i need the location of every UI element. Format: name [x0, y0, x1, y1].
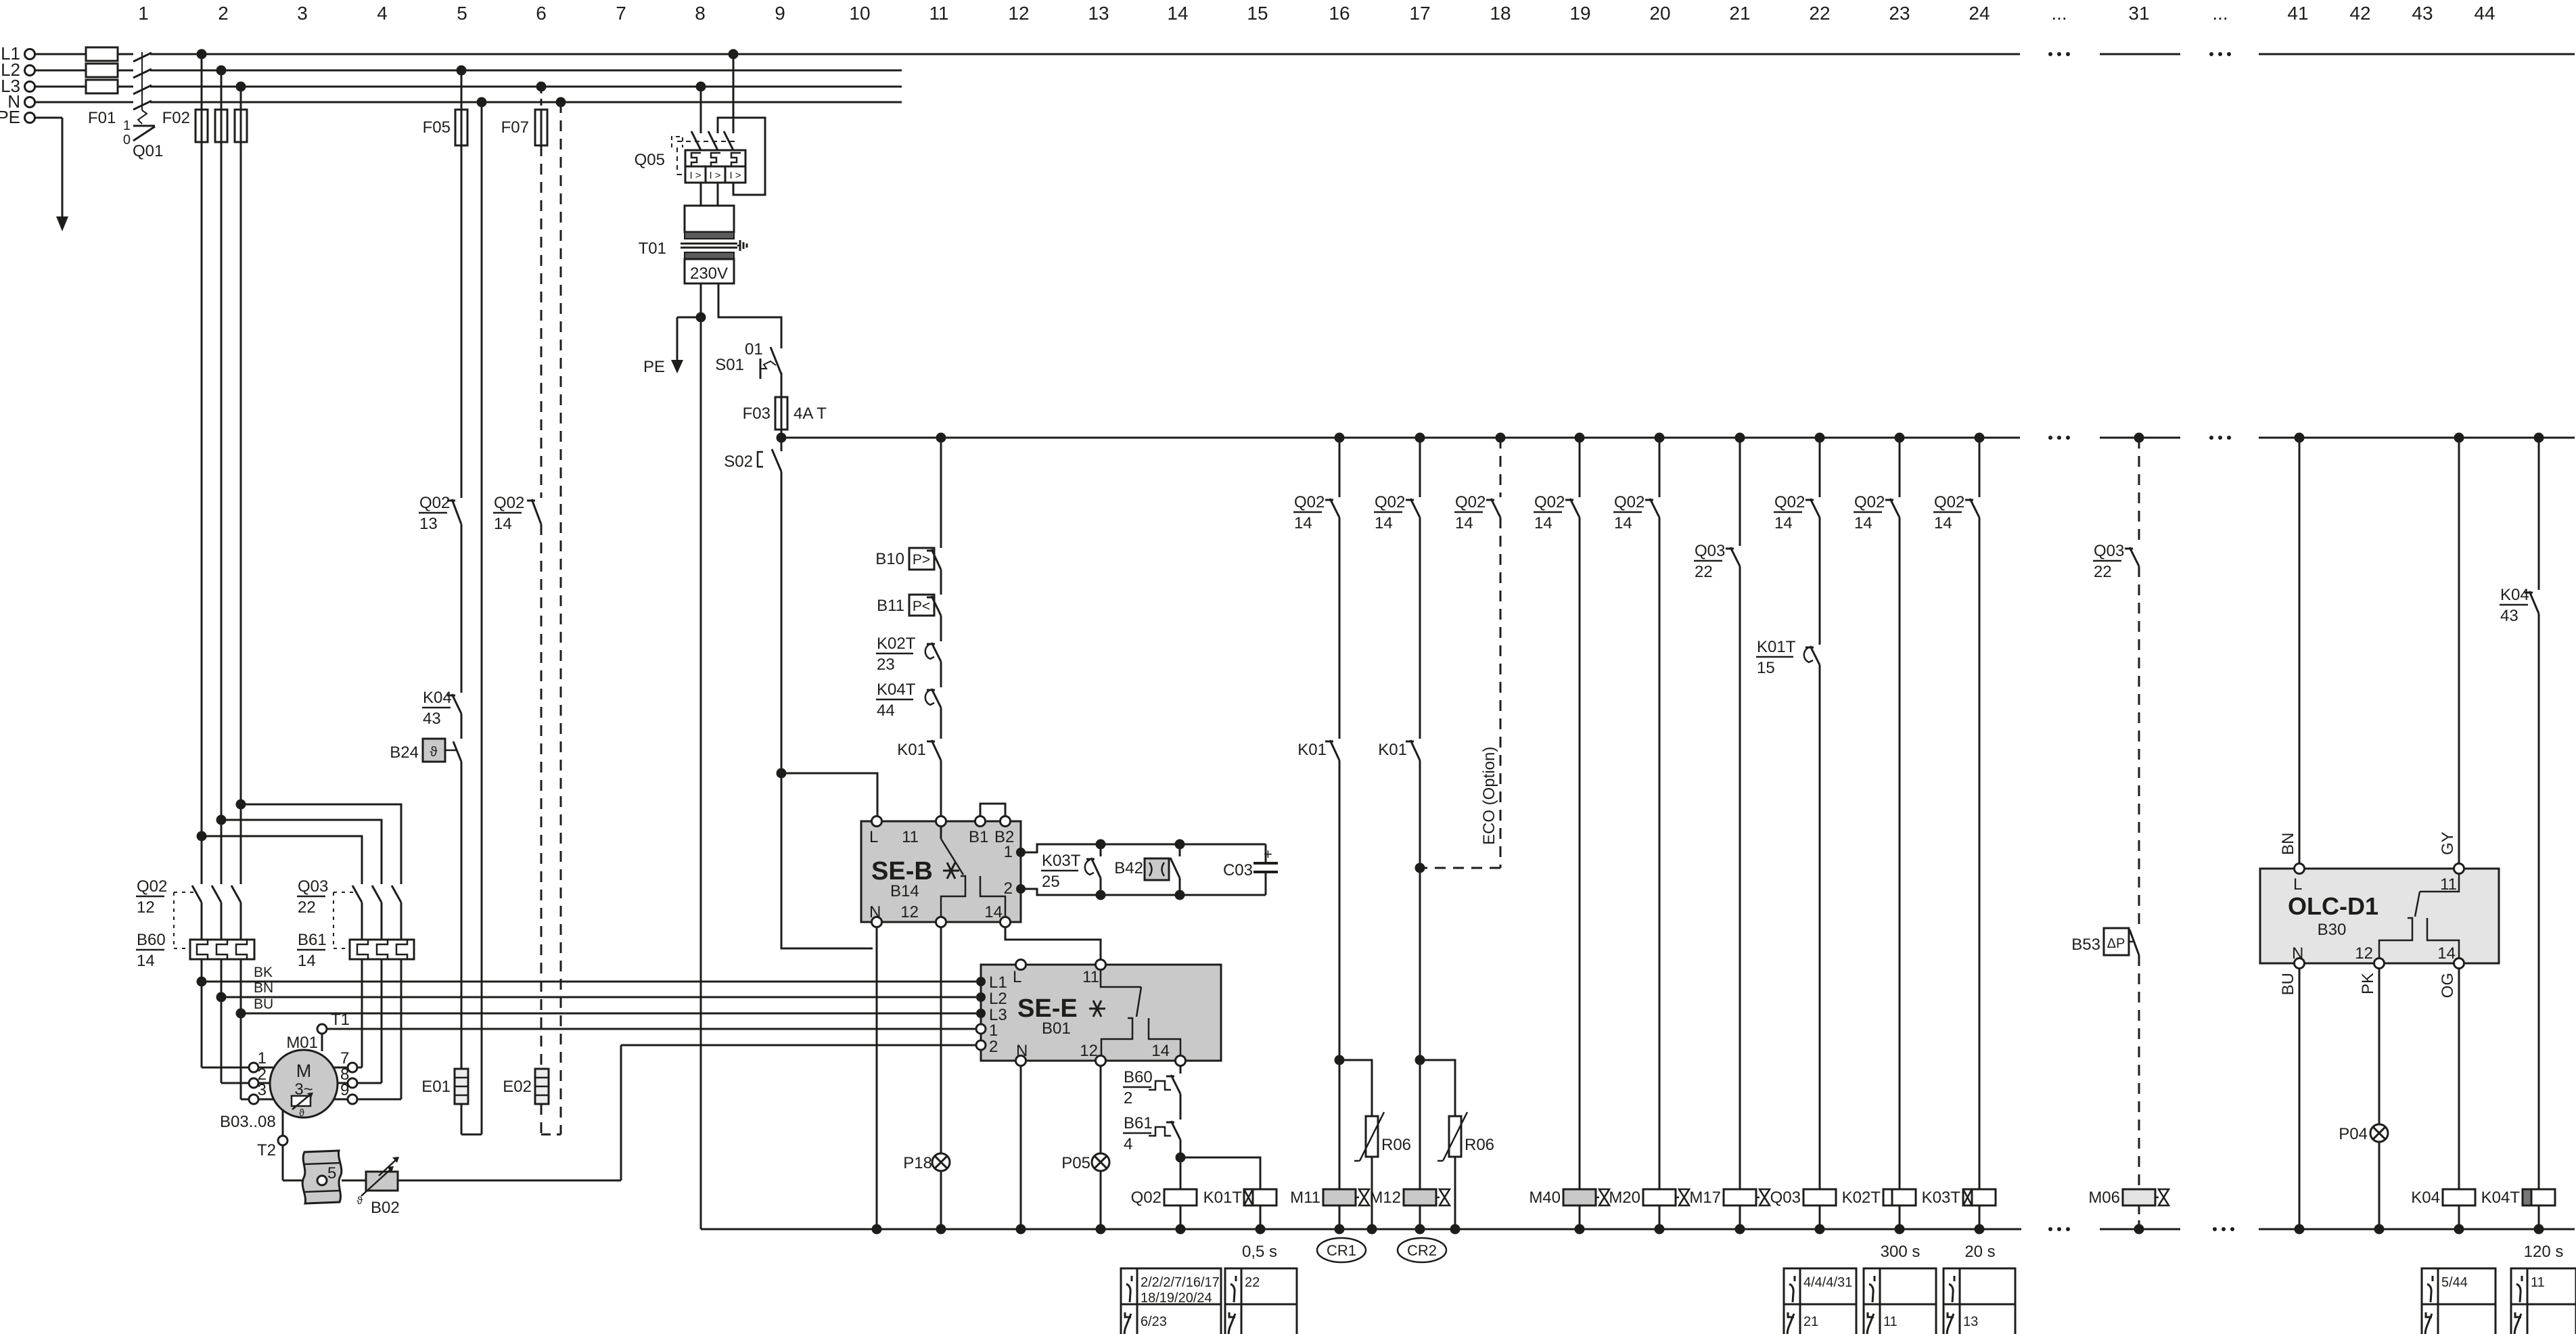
svg-text:Q02: Q02	[1375, 493, 1405, 511]
svg-text:B14: B14	[890, 882, 919, 900]
wire col22	[1819, 438, 1821, 497]
svg-text:5: 5	[327, 1164, 336, 1182]
svg-text:ΔP: ΔP	[2107, 936, 2125, 951]
terminal L1	[25, 49, 35, 60]
OLC terminal N	[2295, 959, 2305, 969]
svg-text:SE-E: SE-E	[1017, 994, 1078, 1023]
svg-text:L2: L2	[989, 990, 1007, 1008]
wire dashed	[540, 524, 543, 1069]
node rail	[1815, 1224, 1825, 1235]
Q05 thermal box	[685, 150, 745, 166]
svg-text:12: 12	[900, 903, 919, 921]
svg-text:14: 14	[1375, 514, 1393, 532]
svg-text:Q02: Q02	[1774, 493, 1805, 511]
pressure switch B10 P>	[909, 548, 934, 570]
node L3-F02	[236, 82, 246, 92]
oil level control OLC-D1 B30	[2260, 869, 2499, 963]
wire to K01T coil	[1180, 1157, 1260, 1189]
fuse F01 (3x)	[86, 47, 118, 61]
node L3-Q05	[696, 82, 706, 92]
svg-text:14: 14	[1934, 514, 1952, 532]
contact Q02/14	[532, 499, 541, 524]
svg-text:C03: C03	[1223, 861, 1253, 879]
svg-text:31: 31	[2128, 3, 2149, 24]
wires Q02 to B60	[201, 902, 203, 940]
svg-text:K01: K01	[897, 741, 926, 759]
svg-text:9: 9	[340, 1081, 349, 1099]
heater E02 (option)	[503, 1078, 532, 1096]
control rail L	[781, 437, 2020, 439]
svg-text:K03T: K03T	[1042, 852, 1081, 870]
node L3-F07	[536, 82, 547, 92]
svg-text:3: 3	[258, 1081, 267, 1099]
button S02	[781, 438, 783, 451]
svg-text:M20: M20	[1609, 1189, 1640, 1207]
wire F02 phase 2	[221, 70, 223, 110]
wire T01 secondary left (N)	[700, 283, 702, 317]
coil Q02	[1180, 1157, 1182, 1189]
svg-text:Q02: Q02	[137, 877, 167, 896]
svg-text:42: 42	[2349, 3, 2370, 24]
node rail	[2374, 1224, 2385, 1235]
svg-text:N: N	[869, 903, 881, 921]
svg-text:23: 23	[1889, 3, 1910, 24]
contact table Q02	[1121, 1268, 1221, 1334]
svg-text:44: 44	[2474, 3, 2495, 24]
SE-B* terminal L	[872, 816, 882, 827]
wire S02 to N line	[781, 773, 873, 948]
svg-text:22: 22	[298, 898, 316, 917]
svg-text:23: 23	[877, 655, 895, 674]
Q03 linkage dashed	[333, 892, 354, 893]
coil Q03	[1803, 1189, 1836, 1205]
node rail N	[872, 1224, 882, 1235]
node R06 branch 2	[1415, 1055, 1425, 1065]
motor terminals 7 8 9	[334, 1067, 348, 1069]
node rail col22	[1815, 433, 1825, 443]
svg-text:41: 41	[2287, 3, 2308, 24]
svg-text:K01T: K01T	[1203, 1189, 1243, 1207]
wire col16	[1339, 438, 1341, 497]
svg-text:11: 11	[1082, 968, 1099, 986]
svg-text:PE: PE	[643, 358, 665, 376]
node rail	[1655, 1224, 1665, 1235]
svg-text:ECO (Option): ECO (Option)	[1480, 747, 1498, 845]
wire thermistor 1 (T1)	[327, 1028, 976, 1030]
svg-text:5: 5	[457, 3, 467, 24]
wire	[1579, 517, 1581, 1189]
svg-text:Q02: Q02	[1131, 1189, 1161, 1207]
break dots L1	[2048, 52, 2052, 56]
node R06 branch 1	[1335, 1055, 1345, 1065]
svg-text:4: 4	[1124, 1135, 1132, 1153]
wire to SE-B* L	[781, 773, 877, 816]
fuse F07	[540, 87, 543, 110]
svg-text:14: 14	[1614, 514, 1632, 532]
wire E02 loop dashed	[540, 1104, 543, 1134]
wires Q03 to B61	[361, 902, 363, 940]
svg-text:CR1: CR1	[1327, 1242, 1356, 1259]
SE-E* terminal 11	[1096, 960, 1106, 970]
contact table K04	[2422, 1268, 2495, 1334]
svg-text:B10: B10	[875, 550, 904, 568]
node BN	[216, 992, 227, 1003]
wire	[461, 524, 463, 693]
wire SE-B* 14 to SE-E* 11	[1005, 927, 1101, 960]
svg-text:Q03: Q03	[1770, 1189, 1801, 1207]
node ECO junction	[1415, 863, 1425, 873]
svg-text:N: N	[2292, 944, 2303, 963]
svg-text:44: 44	[877, 701, 895, 720]
svg-text:4: 4	[377, 3, 388, 24]
svg-text:ϑ: ϑ	[299, 1107, 305, 1119]
node L1-Q05	[729, 49, 739, 60]
contact K01 col17	[1410, 740, 1420, 760]
wire from SE-B* 1	[1021, 844, 1266, 852]
svg-text:N: N	[1016, 1042, 1028, 1060]
svg-text:M: M	[296, 1061, 312, 1081]
SE-B* star symbol	[943, 862, 959, 879]
OLC terminal 11	[2454, 864, 2464, 874]
SE-B* terminal 14	[1001, 917, 1011, 927]
svg-text:K01: K01	[1378, 741, 1407, 759]
main switch Q01	[133, 53, 152, 62]
svg-text:B42: B42	[1114, 859, 1143, 877]
protection device SE-E* B01	[981, 965, 1221, 1061]
coil K03T (20 s)	[1963, 1189, 1996, 1205]
coil K02T (300 s)	[1883, 1189, 1916, 1205]
node rail	[1450, 1224, 1460, 1235]
svg-text:5/44: 5/44	[2441, 1275, 2468, 1290]
svg-text:14: 14	[494, 515, 512, 533]
terminal T2	[282, 1109, 284, 1136]
pressure switch B11 P<	[909, 595, 934, 616]
wire from SE-B* 2	[1021, 889, 1266, 895]
svg-text:L: L	[1013, 968, 1021, 986]
wires B60 down	[201, 959, 203, 1067]
svg-text:B61: B61	[1124, 1114, 1153, 1132]
node rail N	[1016, 1224, 1026, 1235]
wire col20	[1659, 438, 1661, 497]
svg-text:BU: BU	[2279, 973, 2297, 995]
svg-text:14: 14	[2437, 944, 2456, 963]
svg-text:P04: P04	[2339, 1125, 2368, 1143]
svg-text:K04: K04	[423, 689, 452, 707]
svg-text:Q01: Q01	[133, 142, 163, 160]
node rail	[1895, 1224, 1905, 1235]
contact K04/43	[2529, 591, 2539, 614]
node S02 branch	[777, 768, 787, 779]
contact K04/43	[452, 694, 461, 714]
svg-text:15: 15	[1757, 659, 1775, 677]
svg-text:L: L	[2293, 875, 2302, 894]
wire	[940, 708, 942, 739]
wire BU down	[2299, 968, 2301, 1229]
svg-text:24: 24	[1969, 3, 1990, 24]
svg-text:13: 13	[419, 515, 438, 533]
node rail	[2454, 1224, 2464, 1235]
SE-B* B1-B2 jumper	[980, 804, 1005, 816]
svg-text:2: 2	[218, 3, 229, 24]
svg-text:M17: M17	[1689, 1189, 1721, 1207]
wire SE-B* 12 down / lamp P18	[940, 927, 942, 1153]
svg-text:12: 12	[2355, 944, 2373, 963]
contact Q02/13	[452, 499, 461, 524]
node rail	[2295, 1224, 2305, 1235]
svg-text:22: 22	[1695, 563, 1713, 581]
motor M01	[286, 1034, 318, 1052]
PE arrow at T01	[677, 317, 701, 319]
svg-text:R06: R06	[1465, 1136, 1494, 1154]
wire col19	[1579, 438, 1581, 497]
svg-text:22: 22	[2094, 563, 2112, 581]
svg-text:14: 14	[1774, 514, 1793, 532]
svg-text:T01: T01	[639, 239, 666, 258]
node rail GY	[2454, 433, 2464, 443]
svg-text:3: 3	[297, 3, 308, 24]
svg-text:CR2: CR2	[1407, 1242, 1437, 1259]
wire	[1739, 566, 1741, 1189]
SE-B* terminal B2	[1001, 816, 1011, 827]
svg-text:K01T: K01T	[1757, 638, 1796, 656]
node F03-rail	[777, 433, 787, 443]
svg-text:P<: P<	[913, 599, 930, 614]
SE-B* terminal 12	[936, 917, 946, 927]
svg-text:K01: K01	[1297, 741, 1327, 759]
contact K01 (col11)	[931, 740, 941, 760]
svg-text:P>: P>	[913, 552, 930, 568]
node rail	[1575, 1224, 1585, 1235]
wire	[940, 616, 942, 641]
OLC terminal L	[2295, 864, 2305, 874]
SE-B* terminal 1	[1016, 848, 1026, 857]
svg-text:P05: P05	[1061, 1154, 1090, 1172]
node rail col18	[1496, 433, 1506, 443]
coil M12 (solenoid)	[1404, 1189, 1436, 1205]
node Q02 branch	[1176, 1153, 1186, 1163]
SE-E* terminal L3	[976, 1009, 986, 1018]
wire	[1339, 760, 1341, 1189]
svg-text:L1: L1	[989, 973, 1007, 992]
switch S01 (control on/off)	[770, 347, 781, 374]
svg-text:6/23: 6/23	[1141, 1314, 1167, 1329]
svg-text:B01: B01	[1042, 1019, 1071, 1038]
wire OG down	[2458, 968, 2460, 1189]
OLC terminal 14	[2454, 959, 2464, 969]
wire PE to earth arrow	[35, 117, 62, 119]
node rail N	[936, 1224, 946, 1235]
svg-text:120 s: 120 s	[2524, 1243, 2564, 1261]
wire col44	[2538, 438, 2540, 590]
svg-text:B03..08: B03..08	[220, 1113, 276, 1131]
svg-text:B30: B30	[2318, 921, 2347, 939]
svg-text:19: 19	[1569, 3, 1590, 24]
wire BN down	[2299, 438, 2301, 864]
wire SE-B* N down	[876, 927, 878, 1229]
wire F05 to E01	[461, 762, 463, 1069]
node rail	[2534, 1224, 2544, 1235]
SE-E* terminal 12	[1096, 1056, 1106, 1066]
svg-text:K03T: K03T	[1922, 1189, 1961, 1207]
svg-text:Q05: Q05	[635, 151, 665, 169]
wire BU	[241, 1013, 976, 1015]
node rail col21	[1735, 433, 1745, 443]
SE-E* terminal L	[1016, 960, 1026, 970]
wire thermistor 2	[621, 1044, 976, 1046]
contact B61/4 (overload aux)	[1149, 1127, 1171, 1136]
node L2-F02	[216, 66, 227, 76]
coil K01T (0,5 s)	[1244, 1189, 1276, 1205]
svg-text:11: 11	[2531, 1275, 2545, 1290]
wire	[1819, 517, 1821, 645]
svg-text:0: 0	[123, 133, 131, 147]
svg-text:14: 14	[1167, 3, 1188, 24]
node rail	[1735, 1224, 1745, 1235]
svg-text:M11: M11	[1290, 1189, 1320, 1207]
node N-branch	[477, 97, 487, 108]
contact table K02T	[1864, 1268, 1936, 1334]
svg-text:PE: PE	[0, 107, 20, 127]
wire N branch	[481, 102, 483, 1134]
wires B61 down	[361, 959, 363, 1067]
svg-text:Q03: Q03	[2094, 542, 2124, 560]
svg-text:2: 2	[1004, 879, 1013, 898]
svg-text:I >: I >	[689, 170, 701, 181]
node rail col19	[1575, 433, 1585, 443]
svg-text:22: 22	[1245, 1275, 1260, 1290]
contact table Q03	[1784, 1268, 1856, 1334]
node rail	[1335, 1224, 1345, 1235]
svg-text:BN: BN	[2279, 833, 2297, 855]
wire N branch2 dashed	[560, 102, 562, 1134]
node BK	[197, 977, 207, 987]
wire SE-E* 12 down / lamp P05	[1100, 1065, 1102, 1153]
thermostat B24	[423, 739, 445, 762]
svg-text:Q02: Q02	[1934, 493, 1964, 511]
svg-text:E02: E02	[503, 1078, 532, 1096]
SE-B* internal contact	[940, 826, 942, 839]
svg-text:13: 13	[1963, 1314, 1978, 1329]
svg-text:43: 43	[2500, 607, 2518, 625]
svg-text:K04T: K04T	[877, 681, 916, 699]
wire L1	[35, 53, 86, 55]
wire	[1419, 517, 1421, 739]
node rail col31	[2134, 433, 2144, 443]
wire	[1659, 517, 1661, 1189]
svg-text:M06: M06	[2088, 1189, 2120, 1207]
node rail N	[1256, 1224, 1266, 1235]
svg-text:F02: F02	[162, 109, 190, 127]
wire BK	[202, 981, 976, 983]
column header numbers	[138, 3, 2495, 24]
contact table K04T	[2511, 1268, 2576, 1334]
wire	[461, 714, 463, 739]
svg-text:14: 14	[1151, 1042, 1170, 1060]
protection device SE-B* B14	[861, 821, 1021, 922]
node rail	[1367, 1224, 1377, 1235]
svg-text:SE-B: SE-B	[871, 857, 933, 885]
svg-text:T2: T2	[257, 1141, 276, 1159]
wire col31 dashed	[2138, 438, 2140, 546]
wire BN	[221, 996, 976, 998]
node rail col17	[1415, 433, 1425, 443]
node rail col24	[1975, 433, 1985, 443]
Q05 magnetic box I>	[685, 166, 745, 183]
node L1-F02	[197, 49, 207, 60]
contact K02T/23	[925, 644, 934, 659]
wire	[1339, 517, 1341, 739]
motor protection Q05	[635, 151, 665, 169]
node rail K04T col	[2534, 433, 2544, 443]
node rail col16	[1335, 433, 1345, 443]
svg-text:B60: B60	[137, 931, 166, 949]
wire col18 dashed (ECO)	[1500, 438, 1502, 497]
svg-text:E01: E01	[421, 1078, 451, 1096]
svg-text:230V: 230V	[690, 264, 728, 283]
terminal L3	[25, 82, 35, 92]
svg-text:1: 1	[123, 118, 131, 133]
relay CR2	[1398, 1238, 1446, 1262]
svg-text:11: 11	[929, 3, 948, 24]
SE-E* terminal L2	[976, 992, 986, 1002]
svg-text:Q02: Q02	[1854, 493, 1885, 511]
contact K01T/15	[1804, 647, 1813, 662]
svg-text:12: 12	[1008, 3, 1029, 24]
fuse F05	[461, 70, 463, 110]
node rail col23	[1895, 433, 1905, 443]
svg-text:4/4/4/31: 4/4/4/31	[1803, 1275, 1852, 1290]
wire col24	[1979, 438, 1981, 497]
svg-text:14: 14	[1534, 514, 1552, 532]
wire F07 down dashed	[540, 145, 543, 498]
OLC internal contact	[2420, 873, 2459, 892]
node rail	[1415, 1224, 1425, 1235]
svg-text:...: ...	[2212, 3, 2228, 24]
wire E01 loop	[461, 1104, 463, 1134]
svg-text:ϑ: ϑ	[430, 745, 438, 760]
node rail	[1975, 1224, 1985, 1235]
wire L3	[35, 86, 86, 88]
node rail N	[1176, 1224, 1186, 1235]
wire T01 secondary right	[718, 283, 781, 348]
svg-text:F03: F03	[743, 405, 770, 423]
coil M17 (solenoid)	[1724, 1189, 1756, 1205]
SE-E* terminal 2	[976, 1040, 986, 1050]
svg-text:10: 10	[849, 3, 870, 24]
svg-text:11: 11	[1883, 1314, 1897, 1329]
svg-text:25: 25	[1042, 873, 1060, 891]
svg-text:K04: K04	[2411, 1189, 2440, 1207]
terminal PE	[25, 113, 35, 123]
svg-text:K02T: K02T	[877, 635, 916, 653]
node rail BN	[2295, 433, 2305, 443]
svg-text:15: 15	[1247, 3, 1268, 24]
svg-text:F05: F05	[423, 118, 451, 137]
resistor R06 (2)	[1420, 1060, 1455, 1116]
svg-text:21: 21	[1803, 1314, 1818, 1329]
svg-text:B53: B53	[2071, 936, 2100, 954]
contact B60/2 (overload aux)	[1149, 1081, 1171, 1090]
svg-text:0,5 s: 0,5 s	[1242, 1243, 1277, 1261]
svg-text:2: 2	[1124, 1089, 1132, 1107]
svg-text:43: 43	[2412, 3, 2433, 24]
break dots rail L	[2048, 436, 2052, 440]
svg-text:I >: I >	[709, 170, 720, 181]
wire	[2538, 614, 2540, 1189]
OLC terminal 12	[2374, 959, 2385, 969]
Q05 trip linkage dashed	[677, 141, 735, 142]
svg-text:Q03: Q03	[1695, 542, 1725, 560]
